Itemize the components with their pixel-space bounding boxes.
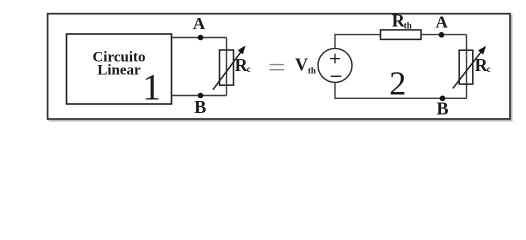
svg-text:Linear: Linear — [97, 63, 141, 79]
arrow of Rc (right) — [453, 51, 482, 88]
svg-text:A: A — [436, 13, 449, 32]
equals sign — [270, 64, 284, 65]
node B (left) — [198, 93, 204, 99]
wire bottom left circuit — [172, 95, 227, 97]
wire source top — [335, 35, 381, 49]
voltage source Vth circle — [318, 48, 352, 82]
linear circuit block 1 — [67, 34, 172, 104]
svg-text:2: 2 — [389, 66, 406, 103]
plus sign — [330, 54, 340, 64]
svg-text:B: B — [436, 99, 448, 119]
wire right branch left circuit — [226, 38, 228, 96]
node A (right) — [439, 32, 445, 38]
svg-text:1: 1 — [142, 68, 161, 109]
resistor Rth — [381, 30, 422, 40]
svg-text:A: A — [193, 14, 206, 33]
minus sign — [331, 75, 342, 77]
svg-text:c: c — [487, 64, 491, 74]
svg-text:B: B — [194, 97, 206, 117]
svg-text:c: c — [247, 64, 251, 74]
arrow of Rc (left) — [213, 52, 241, 90]
wire top left circuit — [172, 37, 227, 39]
node A (left) — [198, 35, 204, 41]
svg-text:th: th — [308, 65, 316, 75]
node B (right) — [440, 96, 446, 102]
wire Rth to corner — [421, 34, 467, 36]
wire source bottom — [335, 82, 467, 98]
outer frame — [49, 15, 511, 120]
svg-text:V: V — [295, 55, 308, 75]
wire right branch right circuit — [466, 35, 468, 99]
svg-text:th: th — [404, 21, 412, 31]
variable resistor Rc (left) — [220, 50, 234, 85]
variable resistor Rc (right) — [459, 50, 473, 84]
